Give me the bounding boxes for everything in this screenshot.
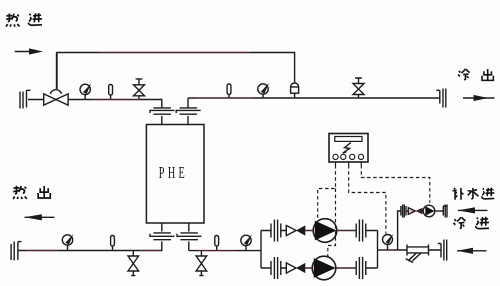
control wire w1 (to pump P1) [318, 165, 336, 220]
thermometer T3 [111, 236, 115, 251]
scan tint overlays [26, 53, 442, 269]
label 补水进 (makeup water in) [452, 188, 494, 200]
flange F4 (cold inlet terminal) [438, 240, 447, 261]
pressure gauge G4 [241, 234, 252, 250]
control valve CV1 [44, 53, 68, 106]
wire: secondary return to pumps [189, 250, 261, 252]
check valve CK3 [408, 208, 422, 215]
wire: cold inlet pipe [378, 249, 442, 251]
pressure gauge G3 [62, 234, 73, 251]
flange F3 (hot return terminal) [11, 242, 21, 261]
flange PHE top-left port [150, 108, 175, 125]
flange FL-B1 [356, 220, 366, 242]
pressure gauge G1 [80, 83, 91, 99]
thermometer T4 [215, 236, 219, 251]
PHE heat exchanger body [146, 125, 204, 224]
drain valve DV2 [196, 251, 207, 276]
control wire w1b (to pump P2) [328, 189, 336, 257]
thermometer T2 [227, 84, 231, 98]
svg-text:PHE: PHE [159, 165, 188, 183]
arrow makeup-in [458, 207, 488, 213]
flange PHE bottom-right port [177, 223, 202, 251]
control wire w3 (to pump P3) [361, 165, 430, 203]
wire: upper pump branch [261, 230, 378, 232]
label 热出 (hot out) [13, 186, 50, 199]
label 冷出 (cold out) [458, 69, 493, 81]
wire: hot supply pipe left [28, 100, 162, 108]
pump P1 [313, 219, 337, 243]
node: pump discharge manifold [377, 231, 379, 269]
wire: top bypass pipe [57, 53, 295, 90]
arrow hot-in [15, 48, 43, 54]
wire: cold outlet pipe [188, 97, 440, 99]
flange PHE bottom-left port [150, 223, 175, 240]
control wire w2 (to gauge G5) [349, 165, 386, 234]
arrow cold-in [457, 248, 487, 254]
check valve CK1 [286, 225, 305, 235]
wire: hot return pipe [19, 241, 162, 250]
flange F2 (cold outlet terminal) [436, 89, 446, 108]
arrow cold-out [463, 95, 495, 101]
wire: lower pump branch [261, 267, 378, 269]
pressure gauge G2 [258, 83, 269, 98]
label 冷进 (cold in) [454, 217, 489, 229]
pump P3 (makeup) [423, 205, 435, 217]
valve V1 [134, 79, 145, 100]
controller U1 [329, 134, 368, 166]
flange FL-B2 [356, 257, 366, 279]
thermometer T1 [109, 85, 113, 100]
valve V2 [353, 78, 364, 98]
temperature sensor S1 [291, 83, 299, 98]
check valve CK2 [286, 263, 305, 273]
flange PHE top-right port [176, 98, 201, 125]
wire: makeup riser [398, 211, 401, 250]
flange FL-A2 [271, 257, 281, 279]
flange FL-A1 [271, 220, 281, 242]
pressure gauge G5 [383, 234, 394, 250]
pump P2 [312, 256, 336, 280]
arrow hot-out [25, 214, 55, 220]
drain valve DV1 [128, 251, 139, 276]
flange F6 (makeup line right) [443, 205, 447, 218]
node: pump suction manifold [260, 231, 262, 269]
flange F1 (hot inlet terminal) [20, 90, 31, 108]
wire: makeup water line [406, 210, 443, 212]
label 热进 (hot in) [6, 13, 42, 27]
strainer ST1 [406, 245, 429, 263]
flange F5 (makeup line left) [401, 205, 406, 218]
